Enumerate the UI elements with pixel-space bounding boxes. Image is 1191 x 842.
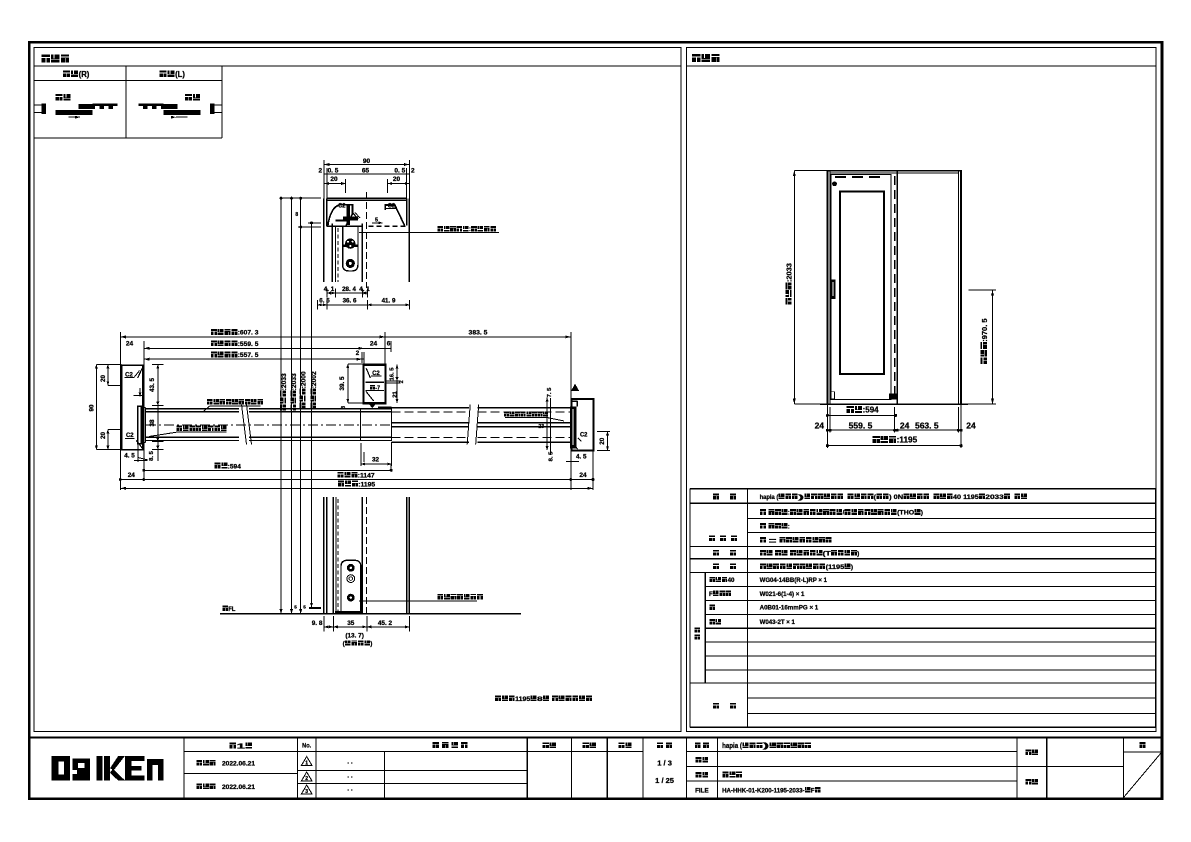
svg-text:(1195: (1195 (826, 564, 845, 571)
svg-text:. .: . . (347, 786, 353, 793)
svg-text:2: 2 (399, 380, 405, 383)
svg-text:HA-HHK-01-K200-1195-2033-: HA-HHK-01-K200-1195-2033- (722, 787, 805, 794)
svg-text:FL: FL (228, 606, 235, 613)
svg-text:No.: No. (302, 743, 311, 750)
svg-text:): ) (851, 564, 853, 571)
svg-text::1195: :1195 (358, 481, 375, 488)
svg-text:6. 5: 6. 5 (319, 297, 330, 304)
svg-text:24: 24 (579, 472, 587, 479)
svg-text::607. 3: :607. 3 (238, 330, 259, 337)
svg-text:W043-2T × 1: W043-2T × 1 (760, 619, 796, 626)
svg-text:1195: 1195 (515, 696, 530, 703)
svg-text:24: 24 (966, 420, 976, 430)
svg-text:1: 1 (237, 742, 245, 751)
svg-text:2022.06.21: 2022.06.21 (222, 760, 255, 767)
svg-text:) 0N: ) 0N (889, 494, 903, 501)
svg-text:2022.06.21: 2022.06.21 (222, 784, 255, 791)
svg-text:hapia (: hapia ( (722, 743, 742, 750)
svg-text:. .: . . (347, 759, 353, 766)
svg-text:28. 4: 28. 4 (342, 286, 356, 293)
svg-text:6: 6 (387, 341, 391, 348)
svg-text::2000: :2000 (300, 371, 307, 388)
svg-text:45. 2: 45. 2 (378, 620, 393, 627)
svg-text:383. 5: 383. 5 (469, 330, 488, 337)
svg-text::: : (788, 510, 790, 517)
svg-text:20: 20 (393, 176, 401, 183)
svg-text:(R): (R) (79, 70, 90, 79)
svg-text:(T: (T (823, 551, 831, 558)
svg-text:40 1195: 40 1195 (953, 494, 979, 501)
svg-text::557. 5: :557. 5 (238, 352, 259, 359)
svg-text:2: 2 (318, 167, 322, 174)
svg-text::2002: :2002 (311, 371, 318, 388)
svg-text::2033: :2033 (785, 263, 794, 282)
svg-text:-7: -7 (375, 385, 380, 391)
svg-text:): ) (763, 743, 769, 750)
svg-text::559. 5: :559. 5 (238, 341, 259, 348)
svg-text:16. 5: 16. 5 (390, 367, 396, 381)
svg-text:): ) (857, 551, 859, 558)
svg-text:. .: . . (347, 773, 353, 780)
svg-text:(13. 7): (13. 7) (345, 632, 364, 639)
svg-text:2: 2 (305, 776, 308, 782)
svg-text::: : (766, 538, 779, 545)
svg-text:1: 1 (305, 761, 308, 767)
svg-text::: : (788, 524, 790, 531)
svg-text::594: :594 (228, 463, 241, 470)
svg-text:24: 24 (370, 341, 378, 348)
svg-text::1147: :1147 (358, 472, 375, 479)
svg-text:40: 40 (728, 577, 735, 584)
svg-text:32: 32 (372, 456, 379, 463)
svg-text:23: 23 (538, 424, 544, 430)
svg-text:8. 5: 8. 5 (149, 450, 155, 460)
svg-text:5: 5 (294, 605, 297, 610)
svg-text:1 / 3: 1 / 3 (657, 759, 672, 768)
svg-text:4. 5: 4. 5 (124, 453, 135, 460)
svg-text:WG04-14BB(R-L)RP × 1: WG04-14BB(R-L)RP × 1 (760, 577, 828, 584)
svg-text:C2: C2 (580, 433, 588, 439)
svg-text:): ) (798, 494, 804, 501)
svg-text:A0B01-16mmPG × 1: A0B01-16mmPG × 1 (760, 605, 819, 612)
svg-text::2033: :2033 (281, 373, 288, 390)
svg-text:4. 1: 4. 1 (324, 286, 335, 293)
svg-text:563. 5: 563. 5 (915, 420, 939, 430)
svg-text::: : (469, 226, 471, 233)
svg-text::1195: :1195 (897, 436, 918, 445)
svg-text:41. 9: 41. 9 (382, 297, 396, 304)
svg-text::970. 5: :970. 5 (980, 318, 989, 342)
svg-text:8. 5: 8. 5 (549, 451, 555, 461)
svg-text:F: F (811, 787, 815, 794)
svg-text:20: 20 (100, 375, 107, 382)
svg-text:hapia (: hapia ( (760, 494, 779, 501)
svg-text:24: 24 (128, 472, 136, 479)
svg-text:W021-6(1-4) × 1: W021-6(1-4) × 1 (760, 591, 805, 598)
svg-text:0. 5: 0. 5 (328, 167, 339, 174)
svg-text:3: 3 (305, 789, 308, 795)
svg-text:24: 24 (815, 420, 825, 430)
svg-text:2033: 2033 (985, 494, 1004, 501)
svg-text:2: 2 (356, 350, 360, 357)
svg-text:38: 38 (149, 419, 156, 426)
svg-text:5: 5 (303, 605, 306, 610)
svg-text:65: 65 (362, 167, 370, 174)
svg-text:4. 5: 4. 5 (576, 454, 587, 461)
svg-text:1 / 25: 1 / 25 (655, 776, 674, 785)
svg-text:24: 24 (126, 340, 134, 347)
svg-text:(THO: (THO (897, 510, 914, 517)
svg-text:21: 21 (392, 390, 398, 397)
svg-text:F: F (709, 591, 713, 598)
svg-text:): ) (921, 510, 923, 517)
svg-text:9. 8: 9. 8 (312, 620, 323, 627)
svg-text:7. 5: 7. 5 (547, 387, 553, 397)
svg-text:39. 5: 39. 5 (339, 376, 346, 391)
svg-text:36. 6: 36. 6 (343, 297, 357, 304)
svg-text:/: / (842, 510, 844, 517)
svg-text:559. 5: 559. 5 (849, 420, 873, 430)
svg-text:8: 8 (537, 696, 543, 703)
svg-text:35: 35 (347, 620, 355, 627)
svg-text:4. 1: 4. 1 (359, 286, 370, 293)
svg-text:): ) (370, 641, 372, 648)
svg-text::2033: :2033 (291, 373, 298, 390)
svg-text:0. 5: 0. 5 (394, 167, 405, 174)
svg-text:8: 8 (295, 212, 298, 218)
svg-text:FILE: FILE (695, 788, 709, 795)
svg-text::594: :594 (863, 406, 879, 415)
svg-text:43. 5: 43. 5 (149, 378, 156, 393)
svg-text:20: 20 (330, 176, 338, 183)
svg-text:24: 24 (900, 420, 910, 430)
svg-text:C2: C2 (338, 204, 346, 210)
svg-text:(L): (L) (175, 70, 185, 79)
svg-text:20: 20 (599, 437, 606, 444)
svg-text:90: 90 (89, 404, 96, 411)
svg-text:20: 20 (100, 432, 107, 439)
svg-text:2: 2 (411, 167, 415, 174)
